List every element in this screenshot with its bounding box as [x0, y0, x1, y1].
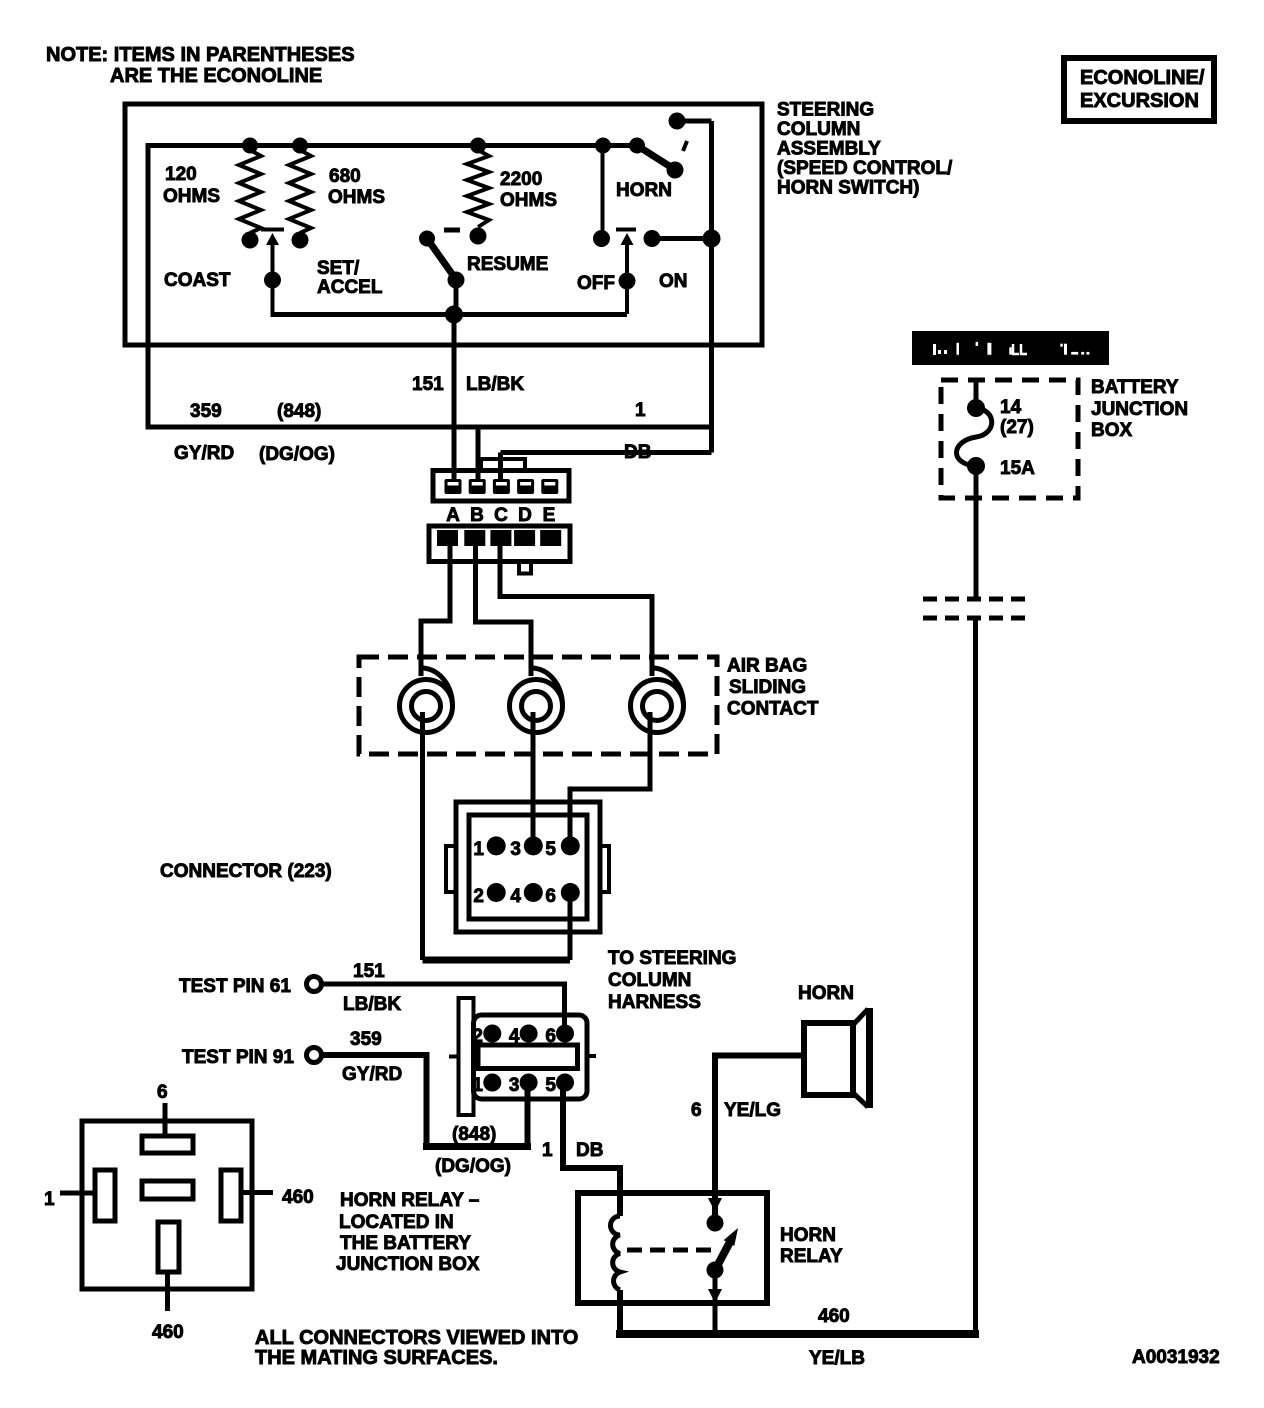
svg-text:HARNESS: HARNESS [608, 992, 701, 1013]
resistor 120 OHMS [163, 150, 261, 249]
connector 6-pin lower pins row 1 3 5 [472, 1074, 574, 1097]
relay connector stubs and labels [44, 1082, 314, 1343]
wire label-row bottom line [146, 425, 712, 430]
horn relay label [780, 1225, 843, 1267]
connector 5-pin lower shell [429, 526, 570, 574]
svg-text:CONTACT: CONTACT [727, 699, 819, 720]
connector 5-pin upper pins [445, 479, 559, 494]
wire c1 down left of connector 223 [420, 712, 425, 960]
wire horn feed YE/LG [715, 1056, 804, 1217]
svg-text:NOTE: ITEMS IN PARENTHESES: NOTE: ITEMS IN PARENTHESES [46, 44, 355, 66]
svg-text:B: B [470, 505, 484, 526]
svg-text:HORN RELAY –: HORN RELAY – [340, 1190, 479, 1211]
wire pin6 down and across to c1 branch [568, 893, 573, 960]
svg-text:HORN SWITCH): HORN SWITCH) [777, 178, 919, 199]
svg-text:6: 6 [545, 1026, 556, 1047]
wire B to airbag c2 [476, 546, 532, 676]
hot at all times banner [912, 331, 1109, 365]
connector 223 pins row 1 3 5 [473, 836, 579, 860]
svg-text:(27): (27) [1000, 417, 1034, 438]
svg-text:5: 5 [545, 1075, 556, 1096]
resistor 2200 OHMS [467, 150, 557, 245]
node bus-680 [292, 138, 308, 154]
svg-text:4: 4 [509, 1026, 520, 1047]
air bag label [727, 656, 819, 720]
wire coil bottom to bus [618, 1290, 623, 1334]
battery junction box label [1091, 377, 1188, 441]
wire bus top [148, 143, 637, 148]
ECONOLINE/EXCURSION box [1064, 58, 1214, 121]
wire 1 DB pin5 down to relay [563, 1083, 620, 1216]
switch COAST/SET-ACCEL T-bar [164, 230, 383, 315]
svg-text:SLIDING: SLIDING [729, 677, 806, 698]
svg-text:THE BATTERY: THE BATTERY [340, 1233, 471, 1254]
pin labels A B C D E [446, 505, 555, 526]
svg-text:14: 14 [1000, 397, 1022, 418]
svg-text:151: 151 [353, 961, 385, 982]
svg-text:6: 6 [157, 1082, 168, 1103]
horn relay connector (battery junction box) [82, 1121, 252, 1289]
relay blade [714, 1228, 738, 1272]
svg-text:TO STEERING: TO STEERING [608, 948, 736, 969]
svg-text:151: 151 [412, 374, 444, 395]
node 151 junction [445, 306, 463, 324]
svg-text:D: D [518, 505, 532, 526]
relay coil [611, 1216, 621, 1290]
svg-text:460: 460 [818, 1306, 850, 1327]
svg-text:RELAY: RELAY [780, 1246, 843, 1267]
svg-text:(DG/OG): (DG/OG) [435, 1156, 511, 1177]
connector 223 pins row 2 4 6 [473, 883, 579, 907]
node bus-2200 [470, 138, 486, 154]
svg-text:(848): (848) [452, 1124, 496, 1145]
svg-text:HORN: HORN [616, 180, 672, 201]
svg-text:359: 359 [190, 401, 222, 422]
relay dashed link [627, 1248, 713, 1253]
svg-text:HORN: HORN [780, 1225, 836, 1246]
svg-text:1: 1 [635, 400, 646, 421]
wire YE/LG labels [691, 1100, 781, 1121]
steering column assembly outer box [125, 104, 762, 345]
switch HORN [616, 113, 712, 202]
svg-text:COLUMN: COLUMN [777, 119, 860, 140]
svg-text:LOCATED IN: LOCATED IN [339, 1212, 454, 1233]
svg-text:LB/BK: LB/BK [343, 994, 401, 1015]
svg-text:2: 2 [472, 1026, 483, 1047]
wire c3 down then to pin5 [570, 712, 650, 846]
note text top-left [46, 44, 355, 87]
svg-text:EXCURSION: EXCURSION [1080, 90, 1199, 112]
wire DB right vertical [709, 121, 714, 453]
connector 5-pin lower pins [437, 530, 561, 546]
svg-text:4: 4 [510, 886, 521, 907]
svg-text:460: 460 [152, 1322, 184, 1343]
svg-text:JUNCTION BOX: JUNCTION BOX [336, 1254, 480, 1275]
svg-text:GY/RD: GY/RD [342, 1064, 402, 1085]
svg-text:LB/BK: LB/BK [466, 374, 524, 395]
svg-text:120: 120 [165, 164, 197, 185]
contact coil c1 [400, 668, 453, 733]
wire 151 down to pin A [452, 315, 457, 483]
relay contact bottom [707, 1262, 724, 1335]
wire bottom bus of switch box [271, 312, 628, 317]
svg-text:359: 359 [350, 1029, 382, 1050]
svg-text:HORN: HORN [798, 983, 854, 1004]
svg-text:E: E [543, 505, 556, 526]
relay contact top [707, 1198, 724, 1232]
svg-text:YE/LG: YE/LG [724, 1100, 781, 1121]
svg-text:2200: 2200 [500, 169, 542, 190]
svg-text:ECONOLINE/: ECONOLINE/ [1080, 67, 1205, 89]
wire 1 DB labels [542, 1140, 603, 1161]
svg-text:ASSEMBLY: ASSEMBLY [777, 139, 881, 160]
connector 5-pin upper shell [433, 459, 569, 501]
wire c2 down to pin3 [531, 712, 536, 846]
svg-text:OFF: OFF [577, 273, 615, 294]
horn relay located label [336, 1190, 480, 1275]
svg-text:STEERING: STEERING [777, 100, 874, 121]
svg-text:GY/RD: GY/RD [174, 443, 234, 464]
svg-text:15A: 15A [1000, 458, 1035, 479]
wire DB down to pin C [498, 453, 503, 481]
wire 460 labels [809, 1306, 865, 1369]
svg-text:COAST: COAST [164, 270, 231, 291]
svg-text:3: 3 [510, 839, 521, 860]
node bus-120 [242, 138, 258, 154]
svg-text:1: 1 [44, 1189, 55, 1210]
contact coil c2 [510, 668, 563, 733]
svg-text:SET/: SET/ [317, 258, 360, 279]
test pin 61 [179, 961, 401, 1015]
svg-text:ACCEL: ACCEL [317, 277, 383, 298]
node bus-horn pivot [629, 138, 645, 154]
svg-text:C: C [494, 505, 508, 526]
switch RESUME [419, 230, 548, 314]
contact coil c3 [631, 668, 684, 733]
svg-text:6: 6 [691, 1100, 702, 1121]
svg-text:1: 1 [542, 1140, 553, 1161]
svg-text:DB: DB [624, 442, 651, 463]
svg-text:460: 460 [282, 1187, 314, 1208]
wire left 359 vertical [146, 143, 151, 427]
connector 223 shell [446, 802, 609, 932]
resistor 680 OHMS [289, 150, 385, 249]
svg-text:A0031932: A0031932 [1132, 1347, 1220, 1368]
svg-text:TEST PIN 61: TEST PIN 61 [179, 976, 291, 997]
wire DB horizontal to pin C [501, 450, 712, 455]
wire pin B stub [476, 427, 481, 482]
connector 6-pin lower shell [449, 998, 596, 1115]
svg-text:A: A [446, 505, 460, 526]
wire labels row [174, 374, 651, 465]
svg-text:AIR BAG: AIR BAG [727, 656, 807, 677]
svg-text:6: 6 [545, 886, 556, 907]
harness break dashes [923, 599, 1032, 618]
svg-text:3: 3 [509, 1075, 520, 1096]
svg-text:YE/LB: YE/LB [809, 1348, 865, 1369]
svg-text:1: 1 [473, 839, 484, 860]
wire 359 test91 to pin3 [322, 1055, 427, 1143]
svg-text:BOX: BOX [1091, 420, 1133, 441]
svg-text:OHMS: OHMS [328, 187, 385, 208]
test pin 91 [182, 1029, 402, 1085]
all connectors note [255, 1327, 578, 1369]
svg-text:RESUME: RESUME [467, 254, 548, 275]
svg-text:1: 1 [472, 1075, 483, 1096]
connector 6-pin lower pins row 2 4 6 [472, 1025, 574, 1048]
svg-text:ALL CONNECTORS VIEWED INTO: ALL CONNECTORS VIEWED INTO [255, 1327, 578, 1349]
svg-text:5: 5 [545, 839, 556, 860]
air bag sliding contact dashed box [359, 657, 717, 754]
svg-text:OHMS: OHMS [500, 190, 557, 211]
svg-text:ON: ON [659, 271, 688, 292]
wire YE/LB bottom bus [616, 1330, 979, 1338]
fuse 14 15A [956, 381, 1035, 479]
svg-text:JUNCTION: JUNCTION [1091, 399, 1188, 420]
svg-text:CONNECTOR (223): CONNECTOR (223) [160, 861, 332, 882]
svg-text:TEST PIN 91: TEST PIN 91 [182, 1047, 294, 1068]
switch OFF/ON [577, 146, 721, 315]
wire C to airbag c3 [500, 546, 652, 676]
svg-text:2: 2 [473, 886, 484, 907]
svg-text:680: 680 [329, 166, 361, 187]
svg-text:DB: DB [576, 1140, 603, 1161]
wire 848 labels [435, 1124, 511, 1177]
svg-text:ARE THE ECONOLINE: ARE THE ECONOLINE [110, 65, 322, 87]
wire A to airbag c1 [421, 546, 450, 676]
wire fuse down [974, 466, 979, 597]
svg-text:THE MATING SURFACES.: THE MATING SURFACES. [255, 1347, 498, 1369]
svg-text:COLUMN: COLUMN [608, 970, 691, 991]
battery junction box dashed [941, 380, 1078, 498]
wire 151 test61 to pin6 [322, 984, 565, 1033]
horn relay box [578, 1193, 767, 1303]
horn speaker [798, 983, 873, 1108]
node bus-off [595, 138, 611, 154]
svg-text:OHMS: OHMS [163, 186, 220, 207]
svg-text:BATTERY: BATTERY [1091, 377, 1179, 398]
steering column assembly label [777, 100, 953, 199]
to steering column harness label [608, 948, 736, 1013]
svg-text:(848): (848) [277, 401, 321, 422]
svg-text:(DG/OG): (DG/OG) [259, 444, 335, 465]
svg-text:(SPEED CONTROL/: (SPEED CONTROL/ [777, 158, 953, 179]
